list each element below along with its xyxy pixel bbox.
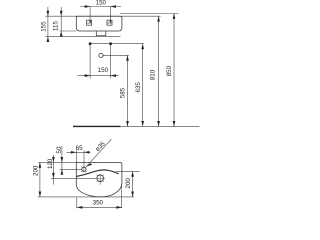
svg-text:350: 350 (93, 200, 104, 207)
svg-text:150: 150 (98, 67, 109, 74)
svg-text:155: 155 (40, 21, 47, 32)
svg-text:850: 850 (166, 65, 173, 76)
svg-text:120: 120 (47, 158, 54, 169)
svg-text:585: 585 (119, 87, 126, 98)
svg-text:115: 115 (52, 21, 59, 31)
svg-text:200: 200 (32, 165, 39, 176)
svg-text:50: 50 (56, 146, 63, 153)
svg-text:810: 810 (150, 69, 157, 80)
svg-text:150: 150 (96, 0, 107, 7)
svg-text:200: 200 (125, 178, 132, 189)
svg-text:635: 635 (135, 82, 142, 93)
svg-text:65: 65 (76, 145, 83, 152)
